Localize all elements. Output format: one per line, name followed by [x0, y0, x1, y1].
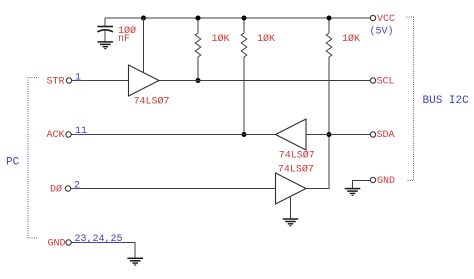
pin 1 of STR [75, 72, 83, 83]
svg-text:1ØK: 1ØK [342, 33, 360, 45]
junction dot R2 top [242, 16, 247, 21]
svg-text:DØ: DØ [50, 183, 62, 195]
pins 23,24,25 of GND [75, 234, 124, 245]
resistor R3 10K [326, 18, 332, 189]
junction dot R1 top [196, 16, 201, 21]
wire VCC rail [105, 17, 370, 19]
node SCL terminal [370, 76, 394, 87]
capacitor C1 value label 100nF [118, 25, 136, 45]
wire GND terminal to ground [71, 243, 135, 259]
svg-text:(5V): (5V) [370, 26, 394, 38]
svg-text:74LSØ7: 74LSØ7 [279, 149, 315, 161]
svg-text:nF: nF [118, 34, 130, 45]
wire U3 ground lead [290, 196, 292, 219]
junction dot R3 / SDA net [327, 132, 332, 137]
svg-text:74LSØ7: 74LSØ7 [134, 95, 170, 107]
buffer U1 74LS07 [129, 65, 160, 96]
svg-text:11: 11 [75, 126, 87, 137]
svg-text:74LSØ7: 74LSØ7 [278, 163, 314, 175]
svg-text:SCL: SCL [377, 76, 395, 87]
wire U1 output to SCL [159, 80, 370, 82]
node GND terminal (bus side) [370, 176, 395, 187]
wire U1 power lead [143, 18, 145, 72]
node VCC terminal [370, 14, 395, 25]
node PC bracket (dotted) [28, 78, 37, 239]
node D0 terminal [50, 183, 71, 195]
junction dot R1 bottom / SCL net [196, 78, 201, 83]
ground below bus GND [345, 189, 361, 196]
svg-text:VCC: VCC [377, 14, 395, 25]
svg-text:GND: GND [48, 238, 66, 249]
svg-text:ACK: ACK [47, 130, 65, 141]
junction dot R3 top [327, 16, 332, 21]
svg-text:1ØK: 1ØK [257, 33, 275, 45]
node ACK terminal [47, 130, 72, 141]
node STR terminal [47, 76, 72, 87]
svg-text:GND: GND [377, 176, 395, 187]
junction dot R2 bottom / ACK net [242, 132, 247, 137]
buffer U3 74LS07 [276, 173, 307, 204]
svg-text:1: 1 [75, 72, 81, 83]
ground below C1 [98, 42, 114, 49]
buffer U2 74LS07 (pointing left) [276, 119, 307, 150]
junction dot VCC node at C1 / U1 power lead [141, 16, 146, 21]
wire U3 output up to SDA node [306, 188, 330, 190]
resistor R1 10K [195, 18, 201, 81]
capacitor C1 100nF [97, 18, 113, 42]
node GND terminal (PC side) [48, 238, 72, 249]
ground below U3 [283, 219, 299, 226]
pin 2 of D0 [74, 180, 82, 191]
svg-text:PC: PC [6, 156, 20, 168]
svg-text:2: 2 [74, 180, 80, 191]
node SDA terminal [370, 130, 394, 141]
svg-text:STR: STR [47, 76, 65, 87]
wire ACK line (U2 output to ACK terminal) [71, 134, 275, 136]
svg-text:1ØK: 1ØK [212, 33, 230, 45]
svg-text:BUS I2C: BUS I2C [423, 95, 470, 107]
svg-text:SDA: SDA [377, 130, 395, 141]
resistor R2 10K [241, 18, 247, 134]
pin 11 of ACK [75, 126, 89, 137]
node BUS I2C bracket (dotted) [407, 17, 414, 181]
wire STR input to U1 [72, 80, 129, 82]
wire U2 input to SDA [306, 134, 370, 136]
ground below PC GND [127, 258, 143, 265]
svg-text:23,24,25: 23,24,25 [75, 234, 123, 245]
wire bus GND to ground [353, 181, 371, 189]
wire D0 input to U3 [71, 188, 276, 190]
